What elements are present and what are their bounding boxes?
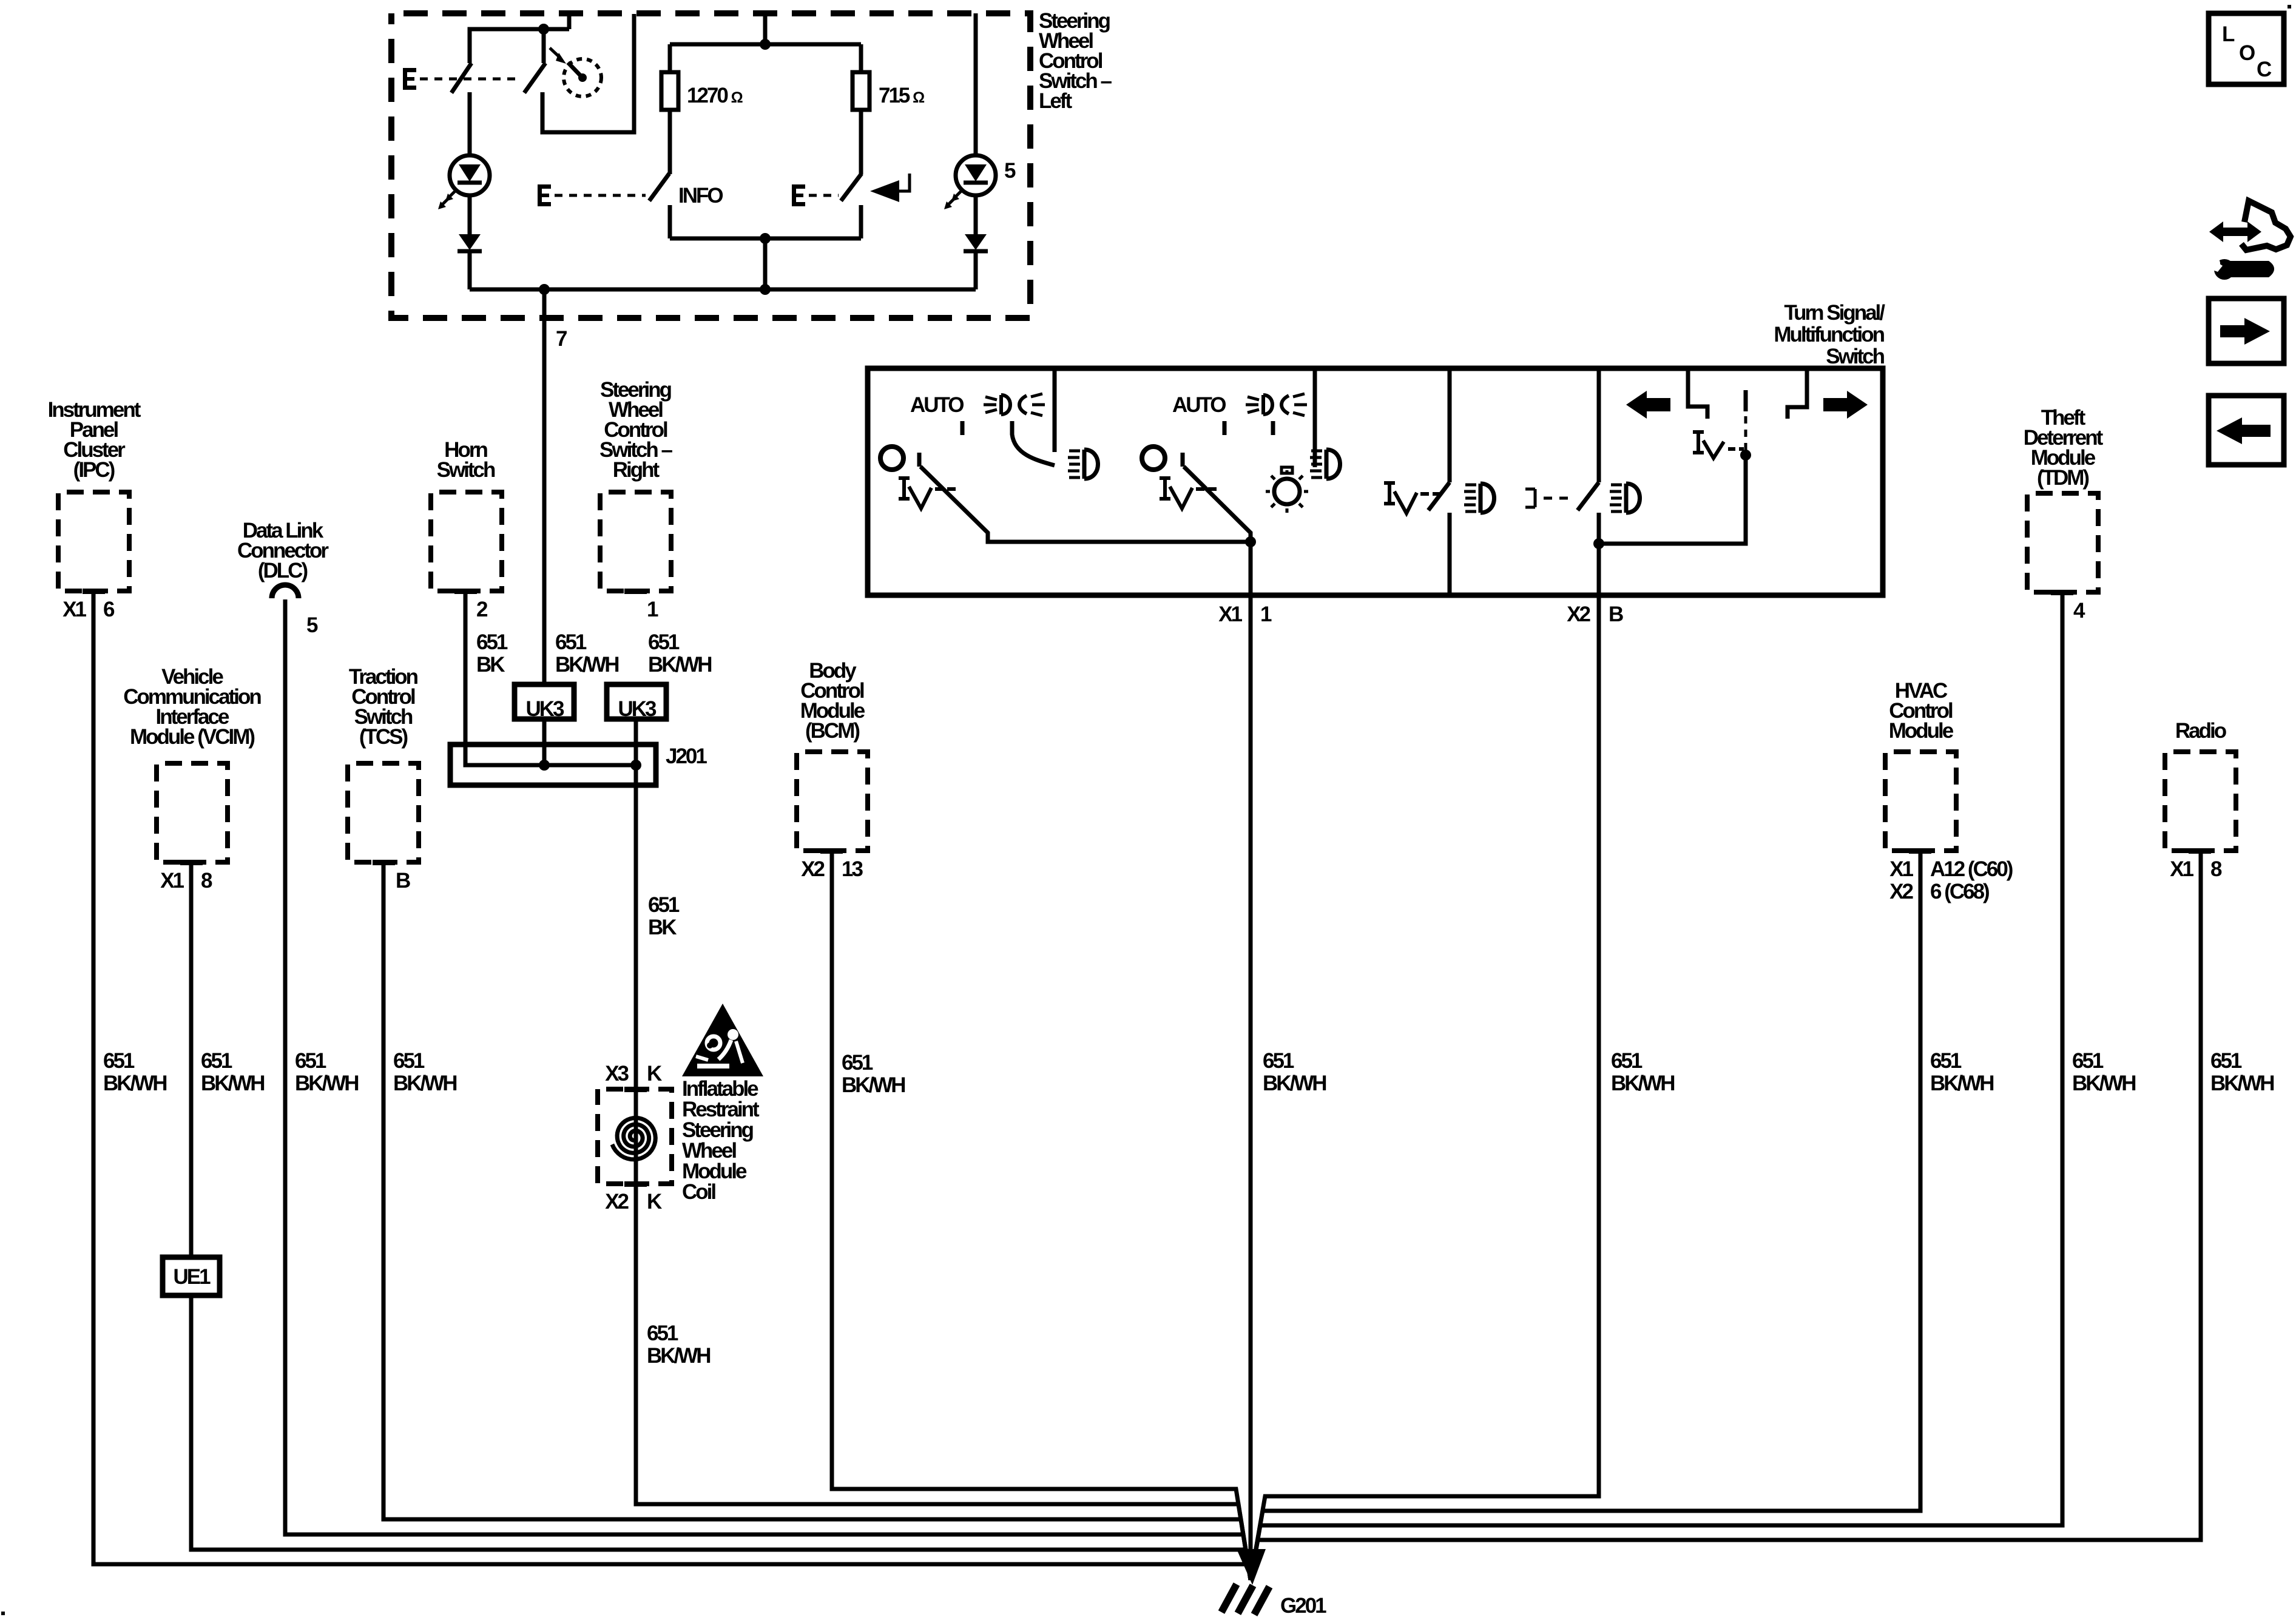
wire label 651 BK horn xyxy=(476,630,508,677)
svg-text:1: 1 xyxy=(1260,603,1272,626)
wire label 651 BK/WH HVAC xyxy=(1930,1049,1993,1095)
svg-text:X1: X1 xyxy=(2170,857,2193,881)
horn symbol xyxy=(870,174,910,202)
VCIM pin labels X1 8 xyxy=(160,869,212,893)
BCM pin labels X2 13 xyxy=(801,857,863,881)
svg-text:X1: X1 xyxy=(160,869,184,893)
dimmer switch lower wire xyxy=(1448,513,1452,593)
splice pack J201 box xyxy=(450,744,656,785)
right turn contact bracket xyxy=(1788,371,1807,419)
junction turn signal stalk xyxy=(1740,450,1751,461)
flash lamp icon 2 xyxy=(1246,394,1307,416)
svg-text:BK/WH: BK/WH xyxy=(103,1072,166,1095)
svg-text:7: 7 xyxy=(556,327,567,351)
wire label 651 BK/WH coil bottom xyxy=(647,1322,710,1368)
wire BCM to ground xyxy=(832,851,1251,1580)
svg-text:B: B xyxy=(1609,603,1623,626)
svg-text:BK/WH: BK/WH xyxy=(648,653,711,677)
airbag warning triangle xyxy=(682,1004,763,1076)
svg-text:X2: X2 xyxy=(1567,603,1590,626)
svg-text:X1: X1 xyxy=(1889,857,1913,881)
svg-text:5: 5 xyxy=(306,613,318,637)
flash switch lower wire to junction xyxy=(1597,513,1601,595)
BCM box xyxy=(797,752,868,851)
coil bottom pin bar xyxy=(624,1181,647,1187)
E contact symbol (horn switch in wheel) xyxy=(792,184,805,206)
coil pin labels X2 K xyxy=(605,1190,662,1214)
BCM pin bar xyxy=(820,848,843,854)
svg-text:BK/WH: BK/WH xyxy=(2072,1072,2135,1095)
svg-text:BK/WH: BK/WH xyxy=(2210,1072,2274,1095)
svg-text:UE1: UE1 xyxy=(173,1265,211,1289)
wire label 651 BK/WH turn signal xyxy=(1263,1049,1326,1095)
svg-text:Right: Right xyxy=(613,458,660,482)
junction center xyxy=(760,284,771,295)
low beam lamp icon xyxy=(1464,484,1494,513)
fog lamp icon 2 xyxy=(1310,450,1340,479)
left turn legend box xyxy=(2209,396,2284,465)
switch S1 arm (set/coast) xyxy=(451,63,471,93)
svg-text:BK/WH: BK/WH xyxy=(393,1072,456,1095)
E contact symbol (INFO switch) xyxy=(538,184,551,206)
LED 1 xyxy=(438,92,490,209)
turn signal neutral contact xyxy=(1744,390,1748,411)
wire below horn switch xyxy=(859,205,863,238)
svg-text:651: 651 xyxy=(476,630,508,654)
ignition key symbol 4 xyxy=(1693,432,1744,458)
diode D2 xyxy=(964,195,988,289)
svg-text:8: 8 xyxy=(2210,857,2222,881)
divider B xyxy=(1313,371,1317,467)
LOC legend box xyxy=(2209,13,2284,84)
svg-text:BK: BK xyxy=(476,653,505,677)
ignition key symbol 2 xyxy=(1160,478,1217,508)
svg-text:651: 651 xyxy=(295,1049,326,1073)
flash switch upper wire xyxy=(1597,371,1601,482)
high beam lamp icon xyxy=(1610,484,1640,513)
svg-text:AUTO: AUTO xyxy=(910,393,964,417)
HVAC box xyxy=(1885,752,1956,851)
wire to pin X1-1 xyxy=(1249,542,1253,595)
junction turn signal X2 xyxy=(1593,538,1604,549)
svg-text:(TCS): (TCS) xyxy=(359,725,408,749)
junction pin7 xyxy=(539,284,550,295)
wire from S1 to node xyxy=(470,13,569,63)
switch S2 arm (resume) xyxy=(524,29,545,93)
page artifact dot top right xyxy=(2288,5,2291,8)
resistor R 1270 ohm xyxy=(661,44,743,174)
ground symbol G201 xyxy=(1221,1584,1269,1615)
theft deterrent module title xyxy=(2024,406,2104,490)
svg-text:O: O xyxy=(2239,41,2255,65)
turn signal multifunction switch box xyxy=(868,368,1883,595)
cruise gauge box wire xyxy=(542,14,634,132)
ground convergence fill xyxy=(1237,1549,1266,1585)
svg-text:651: 651 xyxy=(1930,1049,1962,1073)
bottom wire inside enclosure xyxy=(470,288,976,292)
TCS box xyxy=(348,763,419,862)
svg-text:Switch: Switch xyxy=(1826,345,1884,368)
page artifact dot bottom left xyxy=(1,1612,5,1615)
ignition key symbol 3 xyxy=(1384,483,1441,513)
svg-text:651: 651 xyxy=(2210,1049,2242,1073)
off position circle 1 xyxy=(880,447,903,470)
VCIM pin bar xyxy=(180,860,203,865)
data link connector (DLC) title xyxy=(237,519,329,582)
svg-text:A12 (C60): A12 (C60) xyxy=(1930,857,2013,881)
wire label 651 BK coil xyxy=(648,893,680,939)
svg-text:Coil: Coil xyxy=(682,1180,715,1204)
contact tick 1 xyxy=(917,453,922,467)
coil top pin bar xyxy=(624,1087,647,1092)
pin label X1 1 xyxy=(1218,603,1272,626)
IPC pin labels X1 6 xyxy=(62,598,115,621)
svg-text:651: 651 xyxy=(555,630,587,654)
radio pin bar xyxy=(2189,848,2211,854)
divider A xyxy=(1053,371,1057,452)
svg-text:651: 651 xyxy=(1263,1049,1294,1073)
svg-text:651: 651 xyxy=(648,893,680,917)
horn switch title xyxy=(437,438,495,482)
svg-text:13: 13 xyxy=(842,857,863,881)
wire turn signal X1 to ground xyxy=(1249,595,1253,1580)
wire TCS to ground xyxy=(383,862,1251,1580)
body control module title xyxy=(800,659,865,743)
svg-text:Switch: Switch xyxy=(437,458,495,482)
data link connector arc xyxy=(272,585,299,598)
svg-text:651: 651 xyxy=(648,630,680,654)
coil pin labels X3 K xyxy=(605,1062,662,1085)
clockspring spiral xyxy=(612,1118,655,1160)
svg-text:651: 651 xyxy=(1611,1049,1643,1073)
svg-text:2: 2 xyxy=(476,598,488,621)
svg-text:BK: BK xyxy=(648,916,677,939)
dimmer switch upper wire xyxy=(1448,371,1452,482)
right turn legend box xyxy=(2209,299,2284,363)
svg-text:X1: X1 xyxy=(62,598,86,621)
radio box xyxy=(2165,752,2236,851)
svg-text:Left: Left xyxy=(1039,89,1073,113)
steering wheel control switch right title xyxy=(599,378,673,482)
horn switch arm xyxy=(841,174,862,201)
SWCS right pin bar xyxy=(624,589,647,594)
svg-text:BK/WH: BK/WH xyxy=(647,1344,710,1368)
dimmer switch arm xyxy=(1428,482,1450,510)
fog lamp icon 1 xyxy=(1068,450,1098,479)
lamp contact tick 2 xyxy=(1271,421,1275,435)
svg-text:BK/WH: BK/WH xyxy=(1263,1072,1326,1095)
LED 2 xyxy=(944,13,996,209)
wire UK3 left to J201 xyxy=(542,719,547,765)
svg-text:(IPC): (IPC) xyxy=(73,458,115,482)
E contact symbol (speed set switch) xyxy=(403,68,416,90)
vehicle communication interface module title xyxy=(123,665,261,749)
svg-text:K: K xyxy=(647,1062,662,1085)
fuse block UK3 right xyxy=(607,684,666,721)
steering wheel control switch right box xyxy=(600,492,671,591)
svg-text:BK/WH: BK/WH xyxy=(1611,1072,1674,1095)
node A junction xyxy=(538,24,549,35)
wire coil to ground xyxy=(636,1184,1251,1580)
wire label 651 BK/WH swcs right xyxy=(648,630,711,677)
svg-text:651: 651 xyxy=(201,1049,232,1073)
left turn contact bracket xyxy=(1688,371,1707,419)
svg-text:G201: G201 xyxy=(1280,1594,1326,1617)
svg-text:(TDM): (TDM) xyxy=(2037,466,2088,490)
wire UK3 right through J201 to coil xyxy=(634,719,638,1184)
resistor loop top wire xyxy=(670,13,861,44)
wire DLC to ground xyxy=(285,599,1251,1580)
svg-text:BK/WH: BK/WH xyxy=(295,1072,358,1095)
svg-text:BK/WH: BK/WH xyxy=(201,1072,264,1095)
lamp contact tick and rotary arm 1 xyxy=(1012,421,1055,465)
wire label 651 BK/WH DLC xyxy=(295,1049,358,1095)
svg-text:L: L xyxy=(2222,22,2235,46)
junction turn signal X1 xyxy=(1245,536,1256,547)
diode D1 xyxy=(458,195,482,289)
inflatable restraint coil caption xyxy=(682,1077,760,1204)
flash to pass bracket xyxy=(1525,489,1535,507)
HVAC control module title xyxy=(1889,679,1954,743)
dashed actuator link INFO xyxy=(555,194,646,197)
dashed actuator link horn xyxy=(809,194,839,197)
wire label 651 BK/WH TCS xyxy=(393,1049,456,1095)
wire label 651 BK/WH BCM xyxy=(842,1051,905,1097)
wire label 651 BK/WH radio xyxy=(2210,1049,2274,1095)
svg-text:5: 5 xyxy=(1004,159,1016,183)
flash lamp icon 1 xyxy=(984,394,1045,416)
TCS pin bar xyxy=(373,860,395,865)
steering wheel service icon xyxy=(2208,201,2291,280)
svg-text:INFO: INFO xyxy=(678,184,723,208)
svg-text:(BCM): (BCM) xyxy=(805,719,859,743)
svg-text:X2: X2 xyxy=(605,1190,629,1214)
steering wheel control switch left enclosure (dashed box) xyxy=(391,13,1030,318)
right turn arrow xyxy=(1823,391,1868,419)
inflatable restraint coil box xyxy=(598,1089,672,1184)
instrument panel cluster (IPC) box xyxy=(58,492,129,591)
svg-text:651: 651 xyxy=(393,1049,425,1073)
svg-text:Multifunction: Multifunction xyxy=(1774,323,1884,346)
AUTO contact tick 1 xyxy=(961,421,965,435)
wire label 651 BK/WH dimmer xyxy=(1611,1049,1674,1095)
svg-text:X3: X3 xyxy=(605,1062,629,1085)
wire label 651 BK/WH TDM xyxy=(2072,1049,2135,1095)
HVAC pin labels xyxy=(1889,857,2013,903)
VCIM box xyxy=(157,763,228,862)
junction loop top xyxy=(760,39,771,50)
resistor loop bottom wire xyxy=(670,238,861,289)
svg-text:X2: X2 xyxy=(801,857,825,881)
svg-text:B: B xyxy=(396,869,410,893)
svg-text:Module (VCIM): Module (VCIM) xyxy=(130,725,254,749)
AUTO contact tick 2 xyxy=(1223,421,1227,435)
wire turn signal X2 to ground xyxy=(1251,595,1599,1580)
off position circle 2 xyxy=(1142,447,1165,470)
svg-text:UK3: UK3 xyxy=(618,697,657,721)
fuse block UK3 left xyxy=(515,684,574,721)
horn pin bar xyxy=(454,589,477,594)
headlamp switch arm 1 xyxy=(920,467,1251,542)
wire pin 7 to UK3 xyxy=(542,289,547,684)
wire horn switch to J201 xyxy=(465,591,636,765)
horn switch box xyxy=(431,492,502,591)
svg-text:AUTO: AUTO xyxy=(1172,393,1226,417)
svg-text:X1: X1 xyxy=(1218,603,1242,626)
cruise gauge icon xyxy=(550,48,601,96)
steering wheel control switch left title xyxy=(1039,9,1112,113)
left turn arrow xyxy=(1626,391,1670,419)
INFO switch arm xyxy=(649,174,669,201)
flash to pass switch arm xyxy=(1578,482,1599,510)
fuse block UE1 xyxy=(163,1257,220,1295)
dashed link flash to pass xyxy=(1544,497,1573,500)
turn signal feed wire xyxy=(1599,455,1746,544)
svg-text:651: 651 xyxy=(103,1049,135,1073)
resistor R 715 ohm xyxy=(853,44,925,174)
svg-text:1: 1 xyxy=(647,598,658,621)
svg-text:BK/WH: BK/WH xyxy=(1930,1072,1993,1095)
wire label 651 BK/WH pin7 xyxy=(555,630,618,677)
pin label X2 B xyxy=(1567,603,1623,626)
TDM pin bar xyxy=(2051,590,2073,595)
wire label 651 BK/WH IPC xyxy=(103,1049,166,1095)
svg-text:8: 8 xyxy=(201,869,212,893)
svg-text:Module: Module xyxy=(1889,719,1954,743)
junction J201 right xyxy=(630,760,641,771)
headlamp switch arm 2 xyxy=(1184,467,1251,542)
IPC pin bar xyxy=(83,589,105,594)
svg-text:Radio: Radio xyxy=(2175,719,2227,743)
svg-text:651: 651 xyxy=(842,1051,873,1075)
svg-text:6: 6 xyxy=(103,598,115,621)
svg-text:X2: X2 xyxy=(1889,880,1913,903)
traction control switch title xyxy=(349,665,418,749)
wire VCIM to ground xyxy=(191,862,1251,1580)
wire below INFO switch xyxy=(668,205,672,238)
svg-text:C: C xyxy=(2257,58,2272,81)
svg-text:BK/WH: BK/WH xyxy=(555,653,618,677)
svg-text:(DLC): (DLC) xyxy=(258,559,308,582)
radio pin labels X1 8 xyxy=(2170,857,2222,881)
svg-text:651: 651 xyxy=(647,1322,678,1345)
HVAC pin bar xyxy=(1909,848,1931,854)
wire label 651 BK/WH VCIM xyxy=(201,1049,264,1095)
svg-text:Turn Signal/: Turn Signal/ xyxy=(1784,301,1885,325)
junction J201 left xyxy=(539,760,550,771)
theft deterrent module box xyxy=(2027,493,2098,592)
svg-text:J201: J201 xyxy=(666,744,707,768)
contact tick 2 xyxy=(1181,453,1185,467)
dashed actuator link xyxy=(420,78,519,81)
svg-text:K: K xyxy=(647,1190,662,1214)
park lamp bulb icon xyxy=(1266,467,1308,513)
svg-text:6 (C68): 6 (C68) xyxy=(1930,880,1989,903)
wire TDM to ground xyxy=(1251,592,2062,1580)
wire HVAC to ground xyxy=(1251,851,1920,1580)
svg-text:651: 651 xyxy=(2072,1049,2104,1073)
wire radio to ground xyxy=(1251,851,2201,1580)
wire IPC to ground xyxy=(93,591,1251,1580)
instrument panel cluster (IPC) title xyxy=(48,398,141,482)
junction loop bottom xyxy=(760,233,771,244)
svg-text:BK/WH: BK/WH xyxy=(842,1073,905,1097)
turn signal multifunction switch title xyxy=(1774,301,1885,368)
ignition key symbol 1 xyxy=(899,478,956,508)
svg-text:UK3: UK3 xyxy=(525,697,564,721)
dashed stalk link xyxy=(1744,416,1747,450)
